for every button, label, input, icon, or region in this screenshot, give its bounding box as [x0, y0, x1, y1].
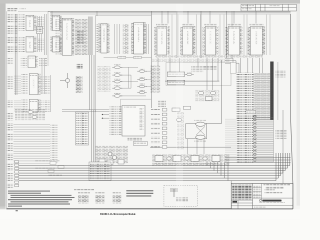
sheet title text top-left [7, 8, 17, 9]
reset section frame [166, 63, 231, 86]
logic row box B1 [155, 156, 163, 162]
P1 header label box [231, 63, 237, 74]
tick wires left of U15 [14, 75, 21, 94]
top small circuit y108-122 [15, 109, 45, 121]
bottom white strip below page [0, 209, 300, 219]
vertical wire x50 mid [50, 75, 52, 112]
left connector labels lower group 7 [7, 173, 14, 181]
timer U21 oval [196, 122, 206, 126]
title block right bottom line [253, 205, 293, 207]
gate interconnect web [121, 67, 151, 96]
right bus bundle vertical [92, 110, 96, 164]
gate G6 [137, 68, 147, 72]
top bus wire 1 [50, 12, 291, 14]
motorola logo bar [262, 200, 281, 202]
timer IC U23 left pin rows [109, 106, 122, 135]
logo divider line [253, 197, 293, 199]
speaker symbol in dashed box [170, 189, 178, 197]
monostable box frame [186, 124, 207, 139]
buffer U17 [167, 72, 184, 76]
switch label boxes column [151, 66, 161, 93]
bottom logic row texture [152, 154, 230, 166]
left connector labels lower group 5 [7, 153, 14, 161]
gate G7 [137, 77, 147, 81]
connector P1 signal names [236, 73, 254, 121]
svg-text:FIGURE 4-1A. Microcomputer Mod: FIGURE 4-1A. Microcomputer Module [100, 212, 136, 216]
wire stubs group 3 [14, 36, 18, 44]
small label boxes above latch [172, 108, 180, 111]
tiny page mark bottom left [16, 209, 18, 212]
sheet border bottom [6, 208, 293, 210]
mid wires x40-48 [42, 58, 45, 94]
scan margin left [0, 0, 6, 206]
U7 left signal rows [96, 24, 99, 53]
RAM U13 [248, 24, 265, 56]
lower logic cluster gates [195, 90, 219, 102]
gate G4 [112, 85, 122, 89]
transistor Q1 [60, 73, 70, 88]
P2 left row wires [225, 118, 237, 160]
ROM U14 [28, 56, 38, 68]
section line B top [95, 15, 151, 17]
connector P1 right rail [277, 62, 279, 120]
cross coupling wires [196, 126, 205, 135]
revision table text3 [242, 8, 252, 10]
sheet border right [291, 14, 293, 209]
wire stubs group 4 [14, 46, 18, 54]
ROM U16 [29, 100, 40, 113]
vertical wire into title block [230, 181, 232, 184]
pin stub row under RAM ICs [155, 55, 263, 58]
label box MEMORY dark [76, 64, 82, 69]
dark signal list block [76, 76, 83, 93]
title block outer [231, 184, 293, 209]
wires from top border to RAM row [162, 11, 256, 23]
left edge labels mid groups [7, 57, 13, 64]
logic row box B2 [173, 156, 181, 162]
MPU left signal rows [56, 19, 60, 55]
section divider B [94, 16, 96, 112]
left connector labels lower group 3 [7, 133, 14, 141]
MPU right label blobs [77, 30, 84, 44]
connector P1 edge bar [270, 62, 273, 121]
title block left bottom rows [231, 200, 252, 209]
ROM U7 [98, 24, 109, 54]
gate G11 [28, 110, 33, 113]
section frame line lower middle [121, 99, 152, 112]
bus spine vertical mid [90, 55, 94, 110]
RAM U10 [180, 24, 195, 56]
wires right of U8 [147, 24, 149, 54]
cassette circuit cluster [95, 146, 128, 164]
wire stubs group 1 [14, 15, 18, 24]
label box right of U23 bottom [133, 142, 147, 145]
section divider D [176, 11, 178, 58]
logo subtext [259, 202, 285, 203]
sheet border top faint left [18, 10, 48, 12]
connector P2 signal names [237, 117, 254, 163]
revision table text2 [269, 5, 280, 6]
row label boxes mid-left [50, 162, 56, 165]
connector P2 wire rows [257, 117, 274, 163]
dashed option box [164, 185, 197, 206]
elbow wires into P1 from left [225, 58, 239, 73]
wires between U7 and bus ladder [115, 24, 120, 54]
U2 left pin ladder [19, 36, 25, 53]
gate G3 [112, 79, 122, 83]
cluster box C [206, 97, 213, 101]
scan margin top [0, 0, 300, 4]
vertical bus wires between RAM ICs [172, 15, 270, 56]
cluster oval A [198, 91, 203, 94]
buffer U1 [26, 15, 36, 30]
U15 left pins [21, 74, 28, 94]
U14 left pins [21, 57, 28, 68]
typical items table [74, 189, 121, 203]
connector P1 annotation top right [276, 71, 286, 78]
revision table text [242, 5, 254, 7]
section divider C [150, 11, 152, 108]
reset wire [165, 80, 219, 82]
section line mid [104, 57, 152, 59]
logic row oval O3 [203, 157, 207, 160]
title block logo mark [233, 201, 238, 203]
connector J1 left labels group 1 [7, 15, 14, 24]
section divider G [231, 11, 233, 58]
wire from timers to right rail [207, 122, 222, 124]
logic row oval O2 [185, 157, 189, 160]
buffer U18 [167, 80, 184, 84]
horizontal wires keyboard rows [14, 124, 51, 164]
transistor Q2 [108, 152, 112, 156]
revision table [241, 4, 296, 11]
gate G8 [137, 84, 147, 88]
connector P2 right rail [273, 117, 275, 162]
left connector labels lower group 4 [7, 143, 14, 151]
wires to right edge lower [225, 158, 291, 163]
P2 right vertical rail [282, 110, 284, 185]
scan margin right [297, 4, 300, 206]
cassette bottom boxes [99, 159, 105, 164]
buffer U5 [50, 37, 61, 53]
ROM U15 MC6830 [29, 74, 40, 95]
wire stubs group 2 [14, 26, 18, 34]
connector J1 left labels group 4 [7, 46, 14, 54]
U2 right stub labels [38, 38, 45, 51]
keyboard label boxes column [76, 112, 89, 145]
connector P2 header box [246, 111, 256, 114]
P2 annotation text right [276, 130, 287, 139]
MPU right signal names [75, 19, 88, 55]
connector J1 left labels group 2 [7, 26, 14, 34]
scattered small labels near terminals [35, 161, 60, 162]
staircase wires from logic row onto bus [207, 162, 228, 181]
wires along top of lower section [62, 110, 109, 112]
small logic cluster upper [191, 66, 203, 73]
bottom horizontal bus lines with right risers [19, 153, 290, 181]
U20 label rows with boxes [151, 108, 167, 148]
tick wires left of U16 [14, 100, 21, 112]
approvals column rows [253, 188, 262, 196]
stub labels row under dividers [152, 59, 230, 63]
scan margin left fade [0, 206, 6, 215]
wire from top border down at x97 [96, 11, 98, 16]
label box lower-left [158, 100, 166, 107]
U16 left pins [21, 100, 28, 113]
RAM U12 [226, 24, 243, 56]
connector P2 dense pin number column [253, 115, 257, 163]
left connector labels lower group 8 [7, 183, 14, 189]
reset label text [203, 66, 216, 70]
title block divider vertical 1 [252, 184, 254, 209]
label box on mid line 2 [134, 56, 142, 59]
transistor Q3 [113, 156, 117, 160]
gate G12 [32, 115, 37, 118]
left terminal boxes column [15, 161, 19, 187]
buffer U2 [26, 37, 36, 53]
connector P1 wire rows [254, 73, 271, 120]
U1 right stub labels [38, 17, 45, 30]
gate G9 [137, 90, 147, 94]
timer IC U23 [122, 106, 145, 137]
gate G13 left of latch [176, 118, 181, 121]
section divider F [226, 11, 228, 58]
connector J1 left labels group 3 [7, 36, 14, 44]
buffer U4 [50, 15, 61, 30]
cluster oval B [210, 91, 215, 94]
RAM U9 [154, 24, 169, 56]
gate input stubs and labels [98, 66, 111, 92]
MPU U6 MC6800 [60, 18, 74, 55]
stub labels right of U14 [39, 57, 47, 67]
logic row oval O1 [167, 157, 171, 160]
PIA U8 MC6820 [131, 23, 146, 55]
gate G10 [185, 72, 194, 76]
title text schematic diagram [264, 184, 291, 193]
vertical wires latch to logic row [188, 139, 205, 154]
stub labels right of U16 [41, 100, 51, 112]
U23 left wires with dots [102, 115, 109, 119]
U1 left pin ladder [19, 15, 25, 32]
title block divider vertical 2 [261, 184, 263, 201]
decoder U3 [37, 27, 43, 34]
horizontal wire mid y147 [150, 146, 231, 148]
gate G5 [112, 93, 122, 97]
connector P1 top leads [240, 58, 262, 73]
title block left notes text dense [232, 185, 251, 200]
wires right of U20 rows [177, 112, 184, 150]
wire from top border to U4 [51, 11, 53, 15]
address bus vertical lines [89, 17, 92, 56]
bus wires column x37-42 [38, 16, 42, 52]
timer labels [194, 120, 206, 121]
logic row labels under boxes [154, 163, 218, 164]
section divider A [47, 11, 49, 66]
timer U22 oval [196, 135, 206, 139]
stub labels right of U15 [41, 75, 51, 94]
label box on mid line 1 [118, 56, 126, 59]
left vertical bus pair [14, 14, 16, 95]
left connector labels lower group 1 [7, 112, 14, 121]
wires to top of section D [158, 58, 218, 90]
scan crease light band [176, 4, 183, 208]
bus ladder between U7 and U8 [123, 24, 129, 54]
U3 inner label [37, 29, 41, 33]
top bus wire 2 [50, 13, 291, 15]
RAM U11 [203, 24, 219, 56]
ticks right of hrows [50, 124, 58, 163]
left connector labels lower group 6 [7, 163, 14, 171]
numbered list right of table [126, 190, 153, 196]
sheet border left faint [6, 11, 8, 209]
bus wires between U1 and U4 [45, 14, 47, 55]
left connector labels lower group 2 [7, 123, 14, 131]
notes text block [8, 191, 75, 207]
text under U23 [128, 137, 142, 141]
section divider E [200, 11, 202, 58]
dashed box small text [176, 198, 188, 203]
gate G1 [112, 64, 122, 68]
logic row box B4 [212, 156, 220, 162]
logic row box B3 [191, 156, 199, 162]
sheet border top [48, 10, 291, 12]
gate G2 [112, 72, 122, 76]
terminal label table [89, 162, 111, 181]
